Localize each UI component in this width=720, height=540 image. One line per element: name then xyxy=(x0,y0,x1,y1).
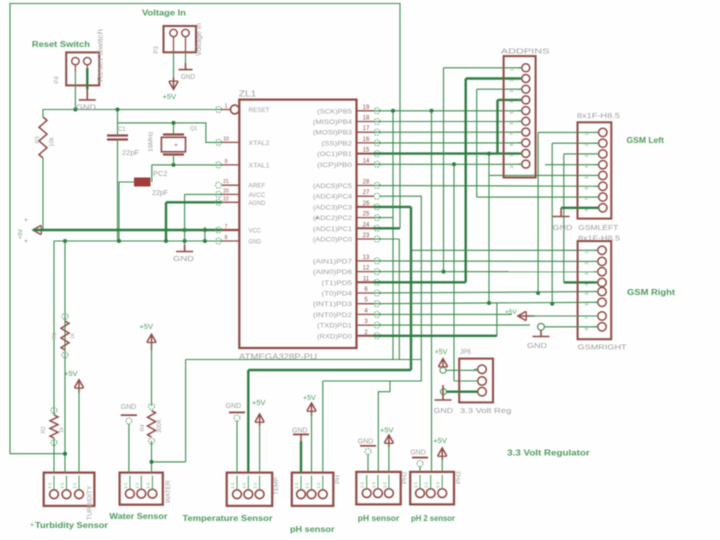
svg-text:RESET: RESET xyxy=(249,107,270,114)
svg-text:(INT0)PD2: (INT0)PD2 xyxy=(313,312,353,319)
svg-text:1-1: 1-1 xyxy=(60,482,65,489)
svg-text:pH sensor: pH sensor xyxy=(358,513,400,523)
svg-text:AVCC: AVCC xyxy=(249,192,266,199)
svg-text:ATMEGA328P-PU: ATMEGA328P-PU xyxy=(239,353,317,362)
svg-text:(ADC4)PC4: (ADC4)PC4 xyxy=(313,194,353,201)
svg-text:12: 12 xyxy=(363,266,370,272)
svg-text:+: + xyxy=(30,522,34,529)
svg-text:GND: GND xyxy=(173,256,194,263)
svg-text:1-1: 1-1 xyxy=(382,481,387,488)
svg-text:Turbidity Sensor: Turbidity Sensor xyxy=(35,520,109,530)
svg-text:GND: GND xyxy=(181,74,195,81)
svg-text:TURBIDITY: TURBIDITY xyxy=(87,485,94,520)
svg-text:(RXD)PD0: (RXD)PD0 xyxy=(317,333,352,340)
svg-text:ZL1: ZL1 xyxy=(239,90,257,99)
svg-text:8: 8 xyxy=(225,235,228,241)
svg-text:R2: R2 xyxy=(41,426,47,433)
svg-text:Reset Switch: Reset Switch xyxy=(98,29,105,82)
svg-text:ADDPINS: ADDPINS xyxy=(501,47,550,56)
svg-text:9: 9 xyxy=(225,159,228,165)
svg-text:15: 15 xyxy=(363,148,370,154)
svg-text:PH3: PH3 xyxy=(456,471,463,484)
svg-text:+5V: +5V xyxy=(435,349,448,356)
svg-text:1-1: 1-1 xyxy=(134,482,139,489)
svg-text:GSMRIGHT: GSMRIGHT xyxy=(578,343,627,352)
svg-text:Water Sensor: Water Sensor xyxy=(109,511,168,521)
svg-text:+5V: +5V xyxy=(433,436,447,445)
svg-text:GSMLEFT: GSMLEFT xyxy=(578,223,618,232)
svg-text:(AIN1)PD7: (AIN1)PD7 xyxy=(313,258,353,265)
svg-text:8x1F-H8.5: 8x1F-H8.5 xyxy=(577,113,620,120)
svg-text:27: 27 xyxy=(363,190,370,196)
svg-text:+: + xyxy=(315,216,319,222)
svg-text:(ADC0)PC0: (ADC0)PC0 xyxy=(313,237,353,244)
svg-text:PC2: PC2 xyxy=(153,169,168,178)
svg-text:GND: GND xyxy=(410,450,426,457)
svg-text:1-1: 1-1 xyxy=(145,482,150,489)
svg-text:JP6: JP6 xyxy=(460,349,471,356)
svg-text:1-1: 1-1 xyxy=(316,482,321,489)
svg-text:18: 18 xyxy=(363,116,370,122)
svg-text:Reset Switch: Reset Switch xyxy=(32,40,90,49)
svg-text:PH: PH xyxy=(335,475,342,484)
svg-text:16MHz: 16MHz xyxy=(148,131,155,152)
svg-text:(ICP)PB0: (ICP)PB0 xyxy=(317,162,352,169)
svg-text:+: + xyxy=(24,218,28,224)
svg-text:Voltage In: Voltage In xyxy=(196,23,203,56)
svg-text:1-1: 1-1 xyxy=(294,482,299,489)
svg-text:26: 26 xyxy=(363,201,370,207)
svg-text:16: 16 xyxy=(363,137,370,143)
svg-text:24: 24 xyxy=(363,222,370,228)
svg-text:1-1: 1-1 xyxy=(241,482,246,489)
svg-text:(MOSI)PB3: (MOSI)PB3 xyxy=(313,130,353,137)
svg-text:(SCK)PB5: (SCK)PB5 xyxy=(317,108,352,115)
svg-text:GSM Left: GSM Left xyxy=(627,136,665,145)
svg-text:300K: 300K xyxy=(157,419,163,433)
svg-text:(ADC5)PC5: (ADC5)PC5 xyxy=(313,183,353,190)
svg-text:WATER: WATER xyxy=(165,480,172,503)
svg-text:R1: R1 xyxy=(52,332,58,339)
svg-text:AGND: AGND xyxy=(249,200,266,207)
svg-text:GND: GND xyxy=(527,341,548,350)
svg-text:GND: GND xyxy=(249,239,262,246)
svg-text:PH2: PH2 xyxy=(402,471,409,484)
svg-text:1-1: 1-1 xyxy=(435,481,440,488)
svg-text:Q1: Q1 xyxy=(190,126,197,132)
svg-text:1-1: 1-1 xyxy=(413,481,418,488)
svg-text:+5V: +5V xyxy=(303,395,316,402)
svg-text:3.3 Volt Reg: 3.3 Volt Reg xyxy=(460,406,512,415)
svg-text:1-1: 1-1 xyxy=(371,481,376,488)
svg-text:TEMP: TEMP xyxy=(273,477,280,495)
svg-text:17: 17 xyxy=(363,126,370,132)
svg-text:GND: GND xyxy=(226,403,242,410)
svg-text:10k: 10k xyxy=(50,136,56,147)
svg-text:+: + xyxy=(24,239,28,245)
svg-text:GND: GND xyxy=(434,406,454,415)
svg-text:GND: GND xyxy=(553,223,574,232)
svg-text:21: 21 xyxy=(223,179,229,185)
svg-text:3.3 Volt Regulator: 3.3 Volt Regulator xyxy=(507,448,590,458)
svg-text:23: 23 xyxy=(363,233,370,239)
svg-text:1-1: 1-1 xyxy=(305,482,310,489)
svg-text:Voltage In: Voltage In xyxy=(142,9,186,18)
svg-text:1-1: 1-1 xyxy=(360,481,365,488)
svg-text:(AIN0)PD6: (AIN0)PD6 xyxy=(313,269,353,276)
svg-text:(ADC1)PC1: (ADC1)PC1 xyxy=(313,226,353,233)
svg-text:1k: 1k xyxy=(70,333,76,339)
svg-text:P4: P4 xyxy=(55,76,61,84)
svg-text:20: 20 xyxy=(223,188,229,194)
svg-text:+5V: +5V xyxy=(64,369,78,378)
svg-text:(TXD)PD1: (TXD)PD1 xyxy=(317,323,352,330)
svg-text:C1: C1 xyxy=(118,127,126,133)
svg-text:pH 2 sensor: pH 2 sensor xyxy=(411,513,456,523)
svg-text:(ADC2)PC2: (ADC2)PC2 xyxy=(313,215,353,222)
svg-text:28: 28 xyxy=(363,180,370,186)
svg-text:GND: GND xyxy=(76,105,96,112)
svg-text:+5V: +5V xyxy=(163,92,177,101)
svg-text:1-1: 1-1 xyxy=(424,481,429,488)
svg-text:(SS)PB2: (SS)PB2 xyxy=(322,140,353,147)
svg-text:1-1: 1-1 xyxy=(123,482,128,489)
svg-text:11: 11 xyxy=(363,276,370,282)
svg-text:GND: GND xyxy=(358,439,374,446)
svg-text:+5V: +5V xyxy=(505,309,517,316)
svg-text:14: 14 xyxy=(363,158,370,164)
svg-text:+5V: +5V xyxy=(139,322,153,331)
svg-text:(T0)PD4: (T0)PD4 xyxy=(322,291,353,298)
svg-text:VCC: VCC xyxy=(249,228,262,235)
svg-text:GND: GND xyxy=(292,428,308,435)
svg-text:22pF: 22pF xyxy=(122,148,140,157)
svg-text:13: 13 xyxy=(363,255,370,261)
svg-text:1k: 1k xyxy=(59,427,65,433)
svg-text:+: + xyxy=(174,143,178,149)
svg-text:1-1: 1-1 xyxy=(72,482,77,489)
svg-text:AREF: AREF xyxy=(249,183,266,190)
svg-text:(MISO)PB4: (MISO)PB4 xyxy=(313,119,353,126)
svg-text:+5V: +5V xyxy=(380,426,394,435)
svg-text:25: 25 xyxy=(363,212,370,218)
svg-text:1: 1 xyxy=(225,104,228,110)
svg-text:1-1: 1-1 xyxy=(230,482,235,489)
svg-text:R3: R3 xyxy=(35,136,41,143)
svg-text:(OC1)PB1: (OC1)PB1 xyxy=(317,151,352,158)
svg-text:1-1: 1-1 xyxy=(253,482,258,489)
svg-text:+5V: +5V xyxy=(252,398,266,407)
svg-text:R4: R4 xyxy=(140,424,146,431)
svg-text:10: 10 xyxy=(223,136,229,142)
svg-text:XTAL2: XTAL2 xyxy=(249,140,271,147)
svg-text:Temperature Sensor: Temperature Sensor xyxy=(183,513,274,523)
svg-text:pH sensor: pH sensor xyxy=(290,524,335,534)
svg-text:+5V: +5V xyxy=(18,229,24,239)
svg-text:GSM Right: GSM Right xyxy=(627,288,675,297)
svg-text:10: 10 xyxy=(509,163,514,169)
svg-text:(INT1)PD3: (INT1)PD3 xyxy=(313,301,353,308)
svg-text:(ADC3)PC3: (ADC3)PC3 xyxy=(313,204,353,211)
svg-text:19: 19 xyxy=(363,105,370,111)
svg-text:GND: GND xyxy=(121,404,137,411)
svg-text:22pF: 22pF xyxy=(152,190,168,197)
svg-text:(T1)PD5: (T1)PD5 xyxy=(322,280,353,287)
svg-text:22: 22 xyxy=(223,196,229,202)
svg-text:1-1: 1-1 xyxy=(47,482,52,489)
svg-text:XTAL1: XTAL1 xyxy=(249,162,271,169)
svg-text:P3: P3 xyxy=(154,46,160,54)
